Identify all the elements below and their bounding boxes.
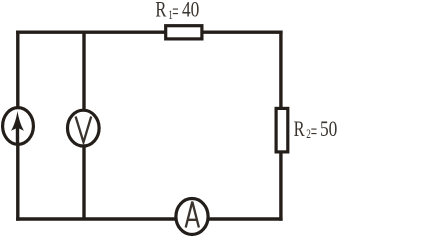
resistor R1 xyxy=(166,26,202,39)
wire left (through current source) xyxy=(16,31,19,221)
svg-text:=: = xyxy=(172,0,178,24)
current source (circle with upward arrow) xyxy=(3,108,34,145)
wire right (R1 to R2 to ammeter) xyxy=(279,31,282,221)
wire voltmeter branch xyxy=(82,32,85,219)
svg-text:50: 50 xyxy=(320,117,337,141)
wire bottom (node between source, voltmeter branch and ammeter) xyxy=(16,217,283,220)
label R2=50 xyxy=(294,117,338,143)
label R1=40 xyxy=(155,0,199,24)
svg-text:R: R xyxy=(155,0,166,22)
svg-text:=: = xyxy=(311,119,317,143)
svg-text:40: 40 xyxy=(182,0,199,22)
wire top (node between source, voltmeter branch and R1) xyxy=(16,31,283,34)
svg-text:R: R xyxy=(294,117,305,141)
resistor R2 xyxy=(276,108,288,151)
ammeter A xyxy=(176,199,208,235)
voltmeter V xyxy=(68,110,100,146)
